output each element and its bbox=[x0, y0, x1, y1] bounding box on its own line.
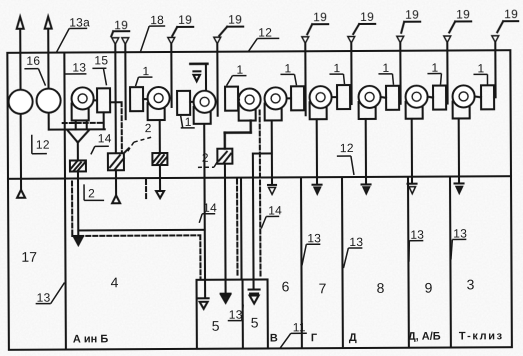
svg-text:12: 12 bbox=[258, 25, 272, 39]
leader 14 mid bbox=[199, 214, 215, 223]
label 19 #3 bbox=[172, 13, 193, 36]
svg-text:14: 14 bbox=[203, 201, 217, 215]
tank box 5 divider bbox=[242, 280, 244, 349]
svg-text:17: 17 bbox=[21, 249, 37, 265]
pipe 19 #8 bbox=[444, 36, 451, 104]
svg-text:1: 1 bbox=[382, 61, 389, 75]
svg-text:13: 13 bbox=[453, 226, 467, 240]
svg-text:15: 15 bbox=[94, 53, 108, 67]
leader 1 u9 bbox=[473, 74, 487, 85]
svg-text:13: 13 bbox=[307, 231, 321, 245]
wire P1-R1 bbox=[94, 99, 97, 101]
svg-text:1: 1 bbox=[431, 61, 438, 75]
leader 13 c7 bbox=[302, 244, 321, 265]
wire P7-R7 bbox=[381, 97, 387, 98]
svg-text:А ин Б: А ин Б bbox=[73, 333, 109, 345]
wire P9-R9 bbox=[475, 96, 482, 97]
leader 1 u7 bbox=[378, 74, 393, 85]
divider compartment 17/4 bbox=[64, 53, 66, 350]
svg-text:12: 12 bbox=[340, 141, 354, 155]
pump P4 bbox=[239, 89, 261, 121]
dashed drop to tank a bbox=[236, 180, 239, 276]
leader 11 bbox=[280, 333, 307, 348]
svg-text:9: 9 bbox=[425, 280, 433, 296]
pump P1 bbox=[72, 87, 94, 129]
header to tank solid bbox=[78, 229, 204, 232]
drain under bus at 366 bbox=[361, 177, 370, 194]
filter F2 bbox=[108, 148, 129, 170]
label 19 pair bbox=[111, 18, 129, 36]
pump P7 bbox=[359, 86, 381, 119]
svg-text:1: 1 bbox=[236, 63, 243, 77]
leader 1 u6 bbox=[329, 74, 344, 84]
valve R2 bbox=[130, 87, 143, 111]
divider compartment 6/7 bbox=[300, 177, 303, 348]
svg-text:19: 19 bbox=[313, 10, 327, 24]
enclosure bottom edge bbox=[9, 347, 512, 350]
svg-text:13: 13 bbox=[229, 308, 243, 322]
wire P5 drop bbox=[271, 120, 273, 177]
leader 1 u3 bbox=[181, 116, 195, 128]
collector header dashed bbox=[63, 122, 105, 124]
svg-text:13: 13 bbox=[37, 291, 51, 305]
wire P7 drop bbox=[365, 119, 367, 177]
leader 13 c9 bbox=[409, 241, 424, 262]
wire P5-R5 bbox=[287, 97, 291, 99]
wire F1 down bbox=[74, 171, 82, 245]
pipe 19 #6 bbox=[348, 37, 355, 105]
leader 18 bbox=[140, 26, 165, 52]
pump P6 bbox=[310, 86, 332, 119]
svg-text:13а: 13а bbox=[69, 15, 90, 29]
svg-text:Д, А/Б: Д, А/Б bbox=[408, 331, 441, 343]
wire P6 drop bbox=[316, 119, 318, 177]
funnel V bbox=[68, 130, 89, 160]
leader 14 right bbox=[261, 216, 279, 228]
leader 2 f3 bbox=[128, 137, 152, 151]
label 19 #9 bbox=[497, 7, 518, 32]
wire R4-P4 bbox=[237, 99, 240, 101]
circle C2 bbox=[37, 89, 61, 113]
svg-text:19: 19 bbox=[228, 13, 242, 27]
wire R1 to pipe 19a dashed bbox=[110, 102, 122, 153]
svg-text:2: 2 bbox=[202, 151, 209, 165]
leader 13 c8 bbox=[343, 248, 362, 268]
leader 15 bbox=[92, 68, 106, 85]
valve R1 bbox=[97, 88, 110, 112]
wire F2 drain bbox=[112, 170, 120, 203]
pump P9 bbox=[453, 85, 475, 118]
branch to tank bbox=[253, 153, 273, 289]
svg-text:19: 19 bbox=[504, 7, 518, 21]
wire P8 drop bbox=[411, 119, 413, 177]
pipe 19 #3 bbox=[168, 37, 175, 107]
svg-text:Г: Г bbox=[311, 332, 318, 344]
svg-text:14: 14 bbox=[268, 203, 282, 217]
valve R9 bbox=[481, 85, 494, 109]
svg-text:13: 13 bbox=[349, 235, 363, 249]
pump P3 bbox=[194, 91, 216, 124]
valve R7 bbox=[386, 86, 399, 110]
pump P8 bbox=[406, 86, 428, 119]
wire F3 drain bbox=[156, 165, 164, 198]
leader 1 u5 bbox=[280, 74, 296, 85]
label 19 #8 bbox=[449, 7, 471, 32]
svg-text:14: 14 bbox=[98, 131, 112, 145]
svg-text:5: 5 bbox=[212, 318, 220, 334]
leader 13 pump bbox=[65, 73, 86, 75]
svg-text:2: 2 bbox=[145, 121, 152, 135]
label 19 #5 bbox=[307, 10, 328, 34]
svg-text:1: 1 bbox=[142, 64, 149, 78]
leader 13 c3 bbox=[451, 239, 467, 259]
leader 13a bbox=[56, 28, 87, 52]
circle C2 riser with arrow bbox=[45, 17, 53, 130]
label 19 #4 bbox=[219, 13, 243, 36]
drain under bus at 412 bbox=[407, 177, 416, 194]
wire P4 discharge bbox=[225, 121, 251, 149]
svg-text:19: 19 bbox=[114, 18, 128, 32]
svg-text:5: 5 bbox=[251, 315, 259, 331]
tank drain d1 bbox=[199, 298, 209, 309]
pump P2 bbox=[148, 87, 170, 120]
leader 14 left bbox=[91, 146, 109, 154]
pipe 19 #9 bbox=[492, 36, 499, 98]
wire P8-R8 bbox=[428, 97, 434, 98]
pipe 19 #5 bbox=[302, 37, 309, 116]
svg-text:2: 2 bbox=[88, 186, 95, 200]
leader 13 tank bbox=[228, 305, 244, 321]
svg-text:16: 16 bbox=[26, 54, 40, 68]
svg-text:12: 12 bbox=[36, 138, 50, 152]
svg-text:19: 19 bbox=[178, 13, 192, 27]
valve R5 bbox=[291, 86, 304, 110]
drain under bus at 459 bbox=[454, 176, 463, 193]
svg-text:6: 6 bbox=[282, 278, 290, 294]
wire R3-P3 bbox=[190, 101, 193, 103]
pipe 19 #2 bbox=[122, 38, 129, 120]
leader 1 u8 bbox=[427, 74, 441, 85]
leader 2 f1 bbox=[84, 184, 104, 200]
divider compartment 7/8 bbox=[341, 177, 344, 348]
svg-text:13: 13 bbox=[410, 228, 424, 242]
header to tank dashed bbox=[72, 181, 201, 281]
leader 1 u2 bbox=[135, 77, 152, 86]
wire F4 to tank bbox=[220, 164, 231, 303]
midline bus 12 bbox=[8, 176, 511, 179]
svg-text:В: В bbox=[270, 332, 278, 344]
pump P5 bbox=[265, 87, 287, 120]
svg-text:11: 11 bbox=[293, 320, 306, 334]
valve R3 bbox=[177, 91, 190, 115]
leader 2 f4 bbox=[198, 161, 218, 168]
enclosure right edge bbox=[510, 50, 512, 347]
svg-text:1: 1 bbox=[477, 61, 484, 75]
circle C1 bbox=[9, 90, 33, 114]
leader 12 top bbox=[248, 38, 279, 51]
svg-text:18: 18 bbox=[150, 13, 164, 27]
svg-text:19: 19 bbox=[360, 10, 374, 24]
svg-text:19: 19 bbox=[405, 8, 419, 22]
tank drain d3 bbox=[249, 290, 260, 304]
wire P9 drop bbox=[458, 118, 460, 176]
svg-text:1: 1 bbox=[333, 61, 340, 75]
svg-text:7: 7 bbox=[319, 280, 327, 296]
collector header solid bbox=[49, 128, 105, 130]
pipe 19 #7 bbox=[397, 36, 404, 104]
pipe 19 #4 bbox=[214, 37, 221, 116]
svg-text:4: 4 bbox=[110, 274, 118, 290]
wire P6-R6 bbox=[332, 96, 337, 98]
divider compartment 8/9 bbox=[407, 177, 410, 348]
leader 16 bbox=[24, 69, 45, 86]
svg-text:1: 1 bbox=[284, 61, 291, 75]
dashed stub below bus bbox=[145, 180, 147, 198]
label 19 #7 bbox=[401, 8, 420, 33]
wire P2 drop to F3 bbox=[159, 120, 161, 153]
leader 12 left bbox=[32, 135, 47, 154]
valve R4 bbox=[225, 87, 238, 111]
pipe to tank divider bbox=[240, 178, 243, 280]
svg-text:Т-клиз: Т-клиз bbox=[459, 330, 504, 342]
svg-text:Д: Д bbox=[349, 332, 357, 344]
label 19 #6 bbox=[353, 10, 375, 34]
circle C1 riser with arrow bbox=[16, 17, 25, 198]
svg-text:19: 19 bbox=[456, 7, 470, 21]
svg-text:8: 8 bbox=[377, 280, 385, 296]
drain under bus at 317 bbox=[312, 177, 321, 194]
valve R8 bbox=[433, 86, 446, 110]
filter F3 bbox=[152, 153, 167, 165]
enclosure top edge bbox=[7, 50, 510, 53]
drain under bus at 272 bbox=[268, 177, 276, 194]
wire P3 drop to tank bbox=[203, 124, 206, 297]
filter F1 bbox=[70, 160, 86, 171]
svg-text:1: 1 bbox=[185, 115, 192, 129]
enclosure left edge bbox=[7, 53, 9, 350]
divider compartment 9/3 bbox=[449, 177, 452, 348]
tank box 5 outline bbox=[197, 279, 268, 348]
leader 12 right bbox=[337, 156, 354, 175]
pipe 19 #1 bbox=[112, 38, 120, 154]
valve R6 bbox=[337, 85, 350, 109]
svg-text:3: 3 bbox=[467, 276, 475, 292]
leader 13 left bbox=[36, 283, 65, 304]
leader 1 u4 bbox=[226, 76, 246, 86]
filter F4 bbox=[217, 149, 232, 164]
dashed drop to tank b bbox=[259, 111, 262, 276]
vent symbol bbox=[190, 64, 207, 90]
wire R2-P2 bbox=[143, 98, 147, 100]
svg-text:13: 13 bbox=[72, 60, 86, 74]
wire R1 bottom drop bbox=[103, 112, 105, 129]
